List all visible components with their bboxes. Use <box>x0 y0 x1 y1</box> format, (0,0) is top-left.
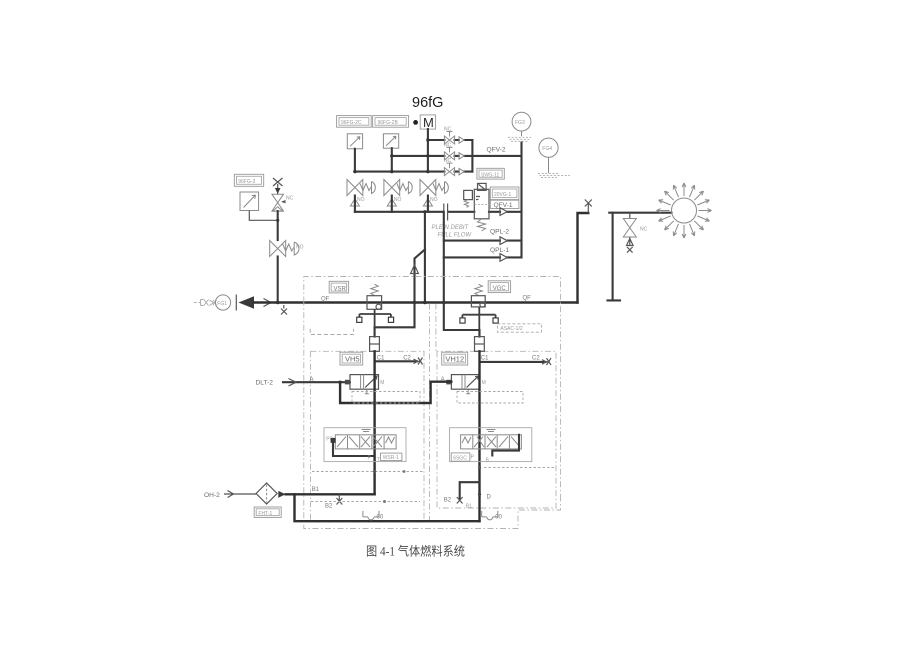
svg-text:FULL FLOW: FULL FLOW <box>438 233 473 239</box>
svg-text:QF: QF <box>321 297 330 303</box>
label box VGC <box>488 281 510 293</box>
wire QPL-2 <box>444 240 522 242</box>
left pilot actuator <box>370 337 380 352</box>
directional valve right outer <box>450 428 532 462</box>
strainer bar <box>235 295 237 311</box>
label box SWS-11 <box>477 168 504 179</box>
gauge circle FG4 <box>538 138 570 178</box>
svg-text:B1: B1 <box>466 504 472 510</box>
dashed pilot line right <box>457 392 523 404</box>
solenoid VH12 <box>446 375 485 394</box>
main stem left <box>373 351 375 494</box>
valve NC left (hand valve) <box>272 178 294 211</box>
drop to bottom drain <box>295 494 480 521</box>
wire QPL-1 <box>444 256 522 258</box>
svg-text:VH5: VH5 <box>345 355 360 364</box>
drain symbol right <box>482 511 503 521</box>
wire M down <box>427 129 429 172</box>
valve NO col3 <box>420 180 448 204</box>
QFV-1 label <box>490 200 519 208</box>
C2 left end arrow-x <box>414 358 423 365</box>
dashed bracket left <box>310 329 353 335</box>
inner dashed box left <box>311 351 425 522</box>
wire row1 <box>428 139 473 141</box>
B2 stub left with X <box>337 494 343 504</box>
svg-text:NC: NC <box>444 127 452 133</box>
svg-text:NC: NC <box>286 196 294 202</box>
caption <box>366 544 465 559</box>
wire gauge1 down <box>354 149 356 172</box>
wire gauge2 down <box>391 148 393 171</box>
svg-text:96fG: 96fG <box>412 95 443 111</box>
valve NC row1 <box>444 127 464 145</box>
regulator VSR spring <box>371 284 378 295</box>
svg-text:96FG-3: 96FG-3 <box>238 179 255 185</box>
B2 branch right <box>460 482 480 498</box>
svg-text:QFV-2: QFV-2 <box>487 147 506 154</box>
pilot up-arrow <box>411 265 419 274</box>
dashed pilot dots left <box>352 392 420 404</box>
svg-text:M: M <box>482 380 486 386</box>
burner sun circle <box>672 198 697 223</box>
svg-text:A: A <box>310 377 314 383</box>
directional valve right body <box>461 430 522 449</box>
valve NC row3 <box>444 158 464 176</box>
svg-text:QFV-1: QFV-1 <box>494 202 513 209</box>
burner header line <box>609 212 671 214</box>
svg-text:NO: NO <box>430 197 438 203</box>
svg-text:P: P <box>471 455 475 461</box>
valve body QFV-1 <box>474 189 489 219</box>
svg-text:FG1: FG1 <box>217 301 227 307</box>
wire FG3 down <box>520 143 522 258</box>
svg-text:NO: NO <box>296 245 304 251</box>
svg-text:VSR: VSR <box>334 286 347 292</box>
label box 96FG-2B <box>373 116 409 128</box>
filter outlet arrow <box>278 491 285 498</box>
vent tip with X <box>585 200 592 214</box>
main stem right <box>478 351 480 521</box>
node junctions <box>276 301 280 305</box>
svg-text:FG3: FG3 <box>515 120 525 126</box>
valve NO col2 <box>384 180 412 204</box>
check valve col2 <box>387 199 396 206</box>
check valve col3 <box>423 199 432 206</box>
svg-text:6SGC: 6SGC <box>453 455 467 461</box>
PS elbow left <box>333 443 373 456</box>
svg-text:B2: B2 <box>325 504 333 510</box>
label box VH12 <box>442 352 468 365</box>
label box 6SGC <box>451 453 470 461</box>
right valve elbow <box>492 435 519 456</box>
wire row2 QFV-2 <box>392 155 522 157</box>
directional valve left outer <box>324 428 406 462</box>
regulator VGC spring <box>475 284 482 295</box>
svg-text:00: 00 <box>377 515 384 521</box>
svg-text:NO: NO <box>357 197 365 203</box>
svg-text:SWS-11: SWS-11 <box>481 172 499 178</box>
main gas line QF <box>254 301 578 303</box>
gauge circle FG1 <box>215 295 230 310</box>
wires cols to bottom line <box>355 196 428 212</box>
check valve col1 <box>350 199 359 206</box>
outer dashed enclosure <box>304 277 561 529</box>
svg-text:VH12: VH12 <box>445 355 464 364</box>
valve NO left <box>270 241 304 257</box>
svg-text:FG4: FG4 <box>542 146 552 152</box>
valve NO col1 <box>347 180 375 204</box>
label box 96FG-3 <box>234 174 263 186</box>
arrow QFV-1 <box>500 208 507 216</box>
svg-text:D: D <box>487 495 492 501</box>
arrow QPL-2 <box>500 237 507 245</box>
svg-text:96FG-2C: 96FG-2C <box>341 120 362 126</box>
dashed label box right <box>497 324 541 332</box>
dashed drain line left <box>311 501 420 503</box>
C2 line right <box>480 361 546 363</box>
pilot regulator 20VG-1: squares <box>464 183 486 199</box>
svg-text:NC: NC <box>640 227 648 233</box>
regulator VSR body <box>367 296 382 310</box>
inner dashed box right <box>437 351 556 508</box>
dashed mid separator <box>430 304 436 521</box>
solid cone strainer <box>239 296 255 308</box>
label box VH5 <box>340 352 363 365</box>
VGC linkage bracket <box>460 307 498 337</box>
svg-text:B2: B2 <box>444 498 452 504</box>
gauge circle FG3 <box>508 112 531 141</box>
gauge 96FG-3 <box>240 192 259 211</box>
svg-text:DLT-2: DLT-2 <box>256 380 274 387</box>
svg-text:20VG-1: 20VG-1 <box>494 192 511 198</box>
drain symbol left <box>363 511 384 521</box>
wire valve down <box>277 211 279 240</box>
svg-text:QPL-2: QPL-2 <box>490 229 509 236</box>
svg-text:OH-2: OH-2 <box>204 492 220 499</box>
label box 20VG-1 <box>490 187 519 200</box>
svg-text:00: 00 <box>495 515 502 521</box>
svg-text:M: M <box>380 380 384 386</box>
spring below body <box>478 219 486 231</box>
label box VSR <box>329 281 348 293</box>
label box FHT-1 <box>254 507 281 517</box>
capacitor bars <box>444 204 448 221</box>
vent riser from QF line <box>578 213 589 303</box>
open arrow <box>264 299 272 307</box>
C2 line left <box>375 360 417 362</box>
valve NC row2 <box>444 142 464 160</box>
solenoid VH5 <box>345 375 384 394</box>
svg-text:PLEIN DEBIT: PLEIN DEBIT <box>432 225 470 231</box>
B1 line <box>286 493 375 495</box>
crossover loop VH5 to VH12 <box>340 382 451 403</box>
arrow QPL-1 <box>500 254 507 262</box>
full-flow line with capacitor gap <box>355 211 522 213</box>
svg-text:NC: NC <box>444 158 452 164</box>
wire drop to QPL lines <box>443 212 445 303</box>
svg-text:WSR-1: WSR-1 <box>383 455 399 461</box>
regulator VGC body <box>471 296 485 307</box>
gauge 96FG-2C <box>347 134 362 149</box>
motor M with bullet <box>413 115 435 130</box>
svg-text:NC: NC <box>444 142 452 148</box>
burner drain leg <box>608 213 621 301</box>
wire full-flow drop to main <box>424 212 426 303</box>
left feed elbow <box>375 303 415 337</box>
wire gauge to valve <box>249 211 277 221</box>
filter FHT-1 <box>256 483 277 504</box>
wire NO valve to main <box>277 257 279 303</box>
C2 right end arrow-x <box>542 358 551 365</box>
svg-text:VGC: VGC <box>493 286 507 292</box>
svg-text:ASAC-1/2: ASAC-1/2 <box>500 326 522 332</box>
svg-text:QF: QF <box>523 296 532 302</box>
svg-text:FHT-1: FHT-1 <box>258 511 272 517</box>
svg-text:B1: B1 <box>312 487 320 493</box>
svg-text:图 4-1 气体燃料系统: 图 4-1 气体燃料系统 <box>366 544 465 559</box>
spring 20VG-1 left <box>464 200 468 208</box>
wire NC-bypass vertical <box>471 140 473 172</box>
burner rays <box>657 183 712 238</box>
right pilot actuator <box>475 337 485 352</box>
valve NC burner <box>623 213 647 253</box>
wire row3 <box>355 171 473 173</box>
svg-text:M: M <box>423 115 434 130</box>
right feed elbow <box>444 303 480 337</box>
label box 96FG-2C <box>337 116 372 128</box>
svg-text:C2: C2 <box>532 355 540 361</box>
svg-text:QPL-1: QPL-1 <box>490 247 509 254</box>
svg-text:T: T <box>377 457 380 463</box>
burner ray arrowheads <box>657 183 712 238</box>
directional valve left body <box>335 430 396 449</box>
VSR linkage bracket <box>357 309 394 336</box>
drain X below line <box>281 305 287 315</box>
label box WSR-1 <box>381 453 402 461</box>
svg-text:96FG-2B: 96FG-2B <box>378 120 399 126</box>
ghost inlet symbols <box>194 300 217 306</box>
svg-text:NO: NO <box>394 197 402 203</box>
gauge 96FG-2B <box>383 134 398 148</box>
svg-text:C1: C1 <box>481 355 489 361</box>
svg-text:B: B <box>486 458 490 464</box>
